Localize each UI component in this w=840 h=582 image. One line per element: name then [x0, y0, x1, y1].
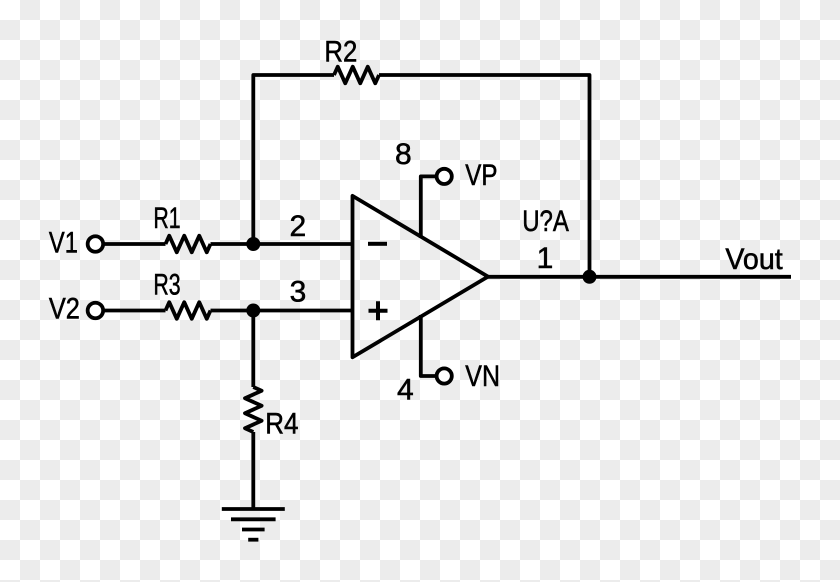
wire R4 to ground — [251, 432, 255, 509]
wire R3 to op-amp non-inverting input — [211, 309, 353, 313]
svg-text:VN: VN — [465, 360, 500, 393]
terminal V2 — [88, 303, 104, 319]
svg-text:4: 4 — [397, 374, 414, 407]
terminal V1 — [88, 236, 104, 252]
junction node inverting input — [246, 237, 260, 251]
resistor R4 — [245, 387, 262, 432]
svg-text:8: 8 — [395, 138, 412, 171]
svg-text:R4: R4 — [265, 407, 298, 440]
wire node to R4 — [251, 311, 255, 388]
terminal VP — [437, 169, 452, 184]
svg-text:R1: R1 — [153, 202, 180, 235]
svg-text:VP: VP — [465, 159, 497, 192]
svg-text:3: 3 — [290, 276, 307, 309]
svg-text:V2: V2 — [49, 293, 80, 326]
op-amp U1 triangle — [353, 196, 489, 357]
ground — [222, 509, 285, 540]
svg-text:1: 1 — [537, 242, 554, 275]
svg-text:V1: V1 — [49, 226, 78, 259]
op-amp plus sign — [369, 301, 388, 320]
wire R1 to op-amp inverting input — [211, 242, 353, 246]
resistor R1 — [166, 236, 211, 253]
resistor R3 — [166, 302, 211, 319]
op-amp minus sign — [368, 242, 387, 246]
svg-text:U?A: U?A — [522, 205, 569, 238]
svg-text:R3: R3 — [153, 269, 180, 302]
resistor R2 — [334, 67, 379, 84]
wire output — [487, 275, 791, 279]
svg-text:Vout: Vout — [725, 243, 783, 276]
wire V1 to R1 — [103, 242, 165, 246]
junction node output — [583, 270, 597, 284]
wire feedback left vertical — [253, 75, 334, 244]
pin 8 power stub VP — [421, 176, 437, 238]
svg-text:2: 2 — [289, 210, 306, 243]
pin 4 power stub VN — [421, 315, 437, 376]
wire V2 to R3 — [103, 309, 165, 313]
wire feedback top right — [379, 75, 590, 277]
junction node non-inverting input — [246, 304, 260, 318]
svg-text:R2: R2 — [324, 36, 357, 69]
terminal VN — [437, 368, 452, 383]
